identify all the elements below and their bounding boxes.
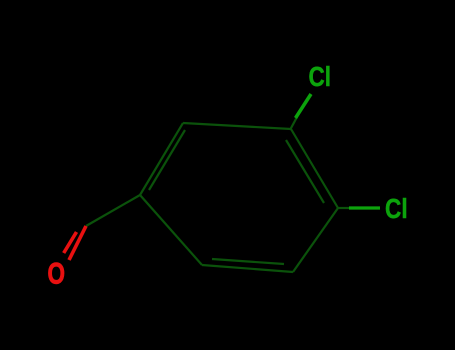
- bond C3-Cl bright half: [296, 94, 312, 118]
- wire ring inner double line V3-V4: [286, 140, 324, 203]
- wire ring edge V4-V5: [293, 208, 338, 272]
- wire ring inner double line V1-V2: [149, 130, 185, 190]
- carbonyl C=O second line: [64, 232, 77, 253]
- svg-text:Cl: Cl: [385, 193, 408, 224]
- svg-text:Cl: Cl: [309, 61, 332, 92]
- wire ring edge V6-V1: [140, 195, 202, 265]
- bond C4-Cl bright half: [349, 206, 380, 209]
- wire ring edge V5-V6 bottom: [202, 265, 293, 272]
- wire ring inner double line V5-V6: [212, 259, 284, 264]
- carbonyl C=O main line: [69, 226, 86, 260]
- wire dark half of C4-Cl bond: [338, 207, 350, 209]
- svg-text:O: O: [48, 258, 66, 291]
- wire ring edge V1-V2: [140, 123, 183, 195]
- benzene ring C1-C2 bond (double): [86, 117, 350, 272]
- wire bond C1 to aldehyde carbon: [86, 195, 140, 226]
- wire ring edge V2-V3 top: [183, 123, 291, 129]
- wire dark half of C3-Cl bond: [290, 117, 297, 130]
- wire ring edge V3-V4 right: [291, 129, 338, 208]
